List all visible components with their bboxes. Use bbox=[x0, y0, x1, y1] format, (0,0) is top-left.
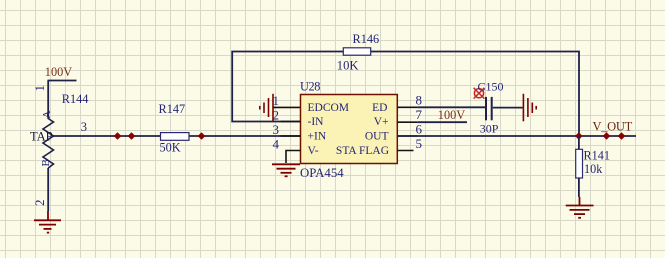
svg-text:10k: 10k bbox=[584, 162, 603, 176]
power port 100V (left) bbox=[45, 65, 77, 81]
op-amp U28 OPA454 bbox=[300, 80, 397, 180]
svg-text:B: B bbox=[40, 159, 52, 166]
svg-text:2: 2 bbox=[273, 108, 280, 123]
wire pin1 to ground bbox=[273, 106, 301, 108]
svg-text:100V: 100V bbox=[438, 108, 465, 122]
wire R141 top bbox=[578, 136, 580, 150]
wire feedback left (from R146 to -IN) bbox=[232, 52, 343, 122]
wire pin8 to C150 bbox=[417, 106, 485, 108]
svg-text:8: 8 bbox=[416, 93, 423, 108]
svg-text:-IN: -IN bbox=[308, 116, 325, 128]
svg-text:10K: 10K bbox=[337, 58, 359, 72]
svg-text:1: 1 bbox=[273, 93, 280, 108]
junction bbox=[198, 132, 206, 140]
wire output net (OUT to V_OUT) bbox=[397, 135, 636, 137]
svg-text:ED: ED bbox=[372, 102, 387, 114]
capacitor C150 bbox=[478, 79, 504, 135]
svg-text:V-: V- bbox=[308, 145, 319, 157]
pin numbers U28 left bbox=[273, 93, 280, 152]
pin numbers U28 right bbox=[416, 93, 423, 152]
svg-text:4: 4 bbox=[273, 137, 280, 152]
resistor R144 (potentiometer) bbox=[40, 92, 88, 168]
svg-text:V+: V+ bbox=[374, 116, 389, 128]
svg-text:1: 1 bbox=[32, 85, 47, 92]
svg-text:+IN: +IN bbox=[308, 131, 327, 143]
svg-text:2: 2 bbox=[32, 200, 47, 207]
wire feedback right (R146 to output net) bbox=[371, 52, 579, 137]
ground (left GND power port) bbox=[34, 211, 61, 233]
svg-text:R141: R141 bbox=[584, 148, 610, 162]
resistor R147 bbox=[159, 102, 190, 155]
svg-text:3: 3 bbox=[81, 120, 87, 134]
wire R141 bottom bbox=[578, 178, 580, 197]
resistor R146 bbox=[337, 32, 379, 72]
svg-text:50K: 50K bbox=[160, 141, 181, 155]
svg-text:5: 5 bbox=[416, 136, 423, 151]
pin names U28 bbox=[308, 102, 390, 157]
svg-text:OPA454: OPA454 bbox=[300, 166, 344, 180]
no-ERC marker (red X) on C150 bbox=[474, 88, 485, 99]
ground (under U28 pin 4 V-) bbox=[272, 164, 300, 176]
power port 100V (on pin 7 V+) bbox=[417, 108, 467, 122]
ground (right GND power port) bbox=[566, 197, 594, 218]
svg-text:R146: R146 bbox=[353, 32, 380, 46]
svg-text:OUT: OUT bbox=[365, 131, 389, 143]
svg-text:7: 7 bbox=[416, 107, 423, 122]
ground (rotated, on EDCOM pin 1) bbox=[260, 94, 273, 122]
wire pot bottom bbox=[47, 168, 49, 211]
pin stubs U28 bbox=[281, 107, 418, 163]
ground (rotated, right of C150) bbox=[523, 94, 536, 122]
svg-text:A: A bbox=[41, 111, 53, 119]
svg-text:100V: 100V bbox=[45, 65, 72, 79]
junction bbox=[114, 132, 122, 140]
svg-text:30P: 30P bbox=[480, 121, 499, 135]
svg-text:STA FLAG: STA FLAG bbox=[336, 145, 389, 157]
svg-text:V_OUT: V_OUT bbox=[593, 119, 633, 133]
junction (R141 tap) bbox=[575, 132, 583, 140]
svg-text:EDCOM: EDCOM bbox=[308, 102, 350, 114]
svg-text:TAP: TAP bbox=[30, 130, 53, 144]
wire main input net (TAP to +IN) bbox=[54, 135, 301, 137]
resistor R141 bbox=[576, 148, 610, 178]
svg-text:3: 3 bbox=[273, 122, 280, 137]
junction bbox=[618, 132, 626, 140]
svg-text:R144: R144 bbox=[62, 92, 89, 106]
svg-text:R147: R147 bbox=[159, 102, 186, 116]
junction bbox=[603, 132, 611, 140]
wire C150 to ground bbox=[493, 107, 523, 109]
junction bbox=[128, 132, 136, 140]
svg-text:U28: U28 bbox=[300, 80, 320, 94]
svg-text:C150: C150 bbox=[478, 79, 504, 93]
wire pot top bbox=[47, 81, 49, 120]
svg-text:6: 6 bbox=[416, 122, 423, 137]
